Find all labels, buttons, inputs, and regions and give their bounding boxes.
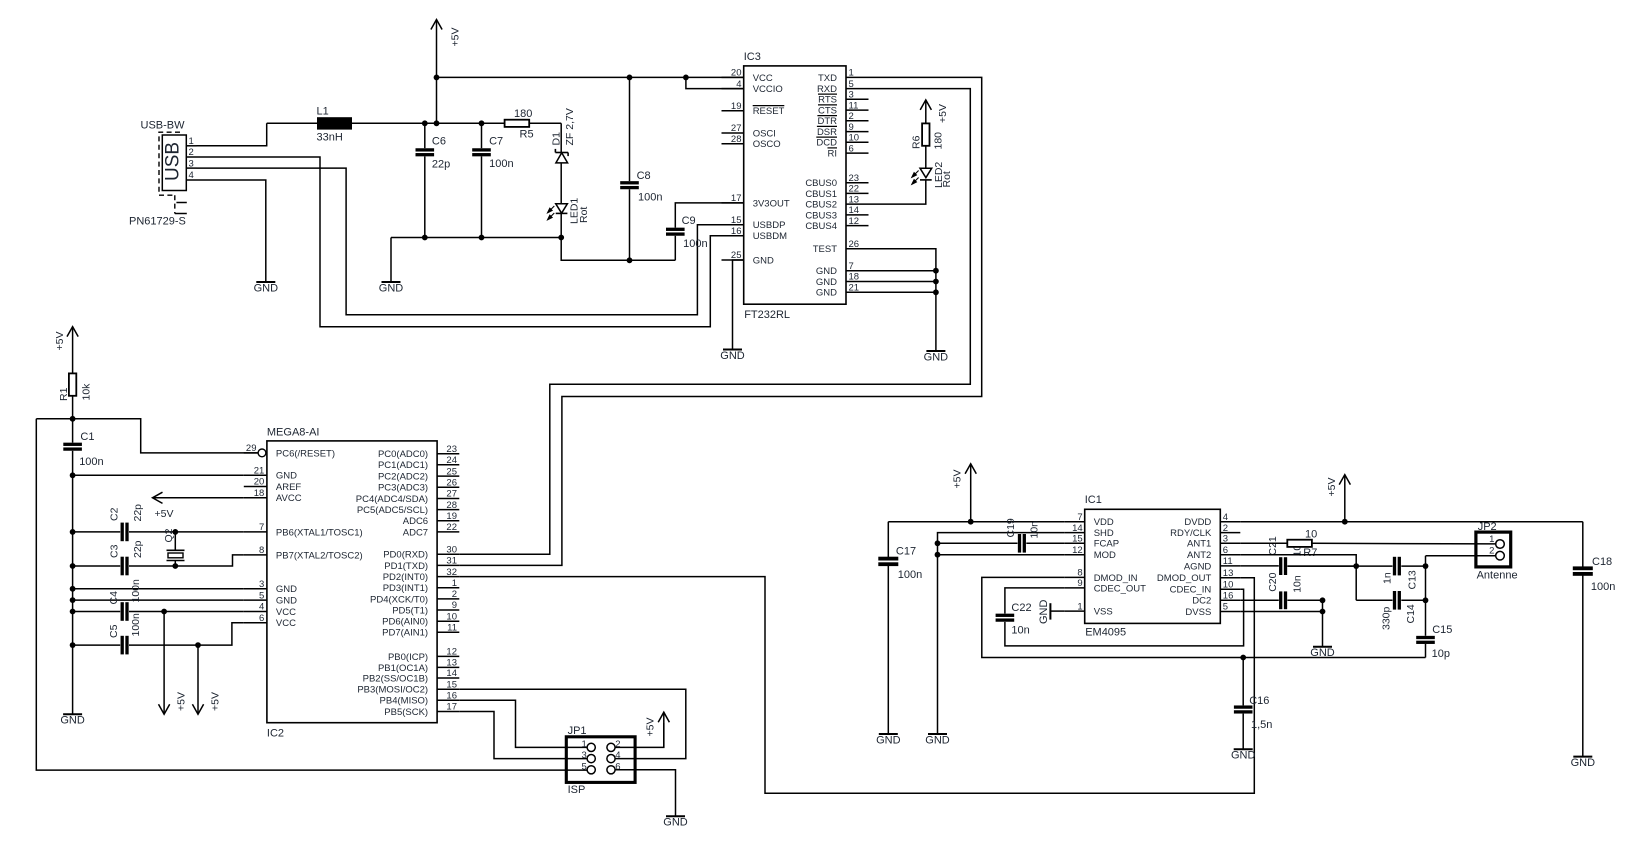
svg-text:PC4(ADC4/SDA): PC4(ADC4/SDA)	[356, 494, 428, 505]
svg-text:3: 3	[849, 90, 854, 101]
svg-text:33nH: 33nH	[317, 132, 343, 144]
svg-text:14: 14	[1072, 523, 1083, 534]
pin 26 PC3(ADC3) (IC2 right)	[378, 478, 459, 494]
svg-text:21: 21	[849, 283, 860, 294]
svg-text:VCC: VCC	[276, 607, 296, 618]
capacitor C3 22p	[73, 540, 244, 575]
wire LED2 cathode to CBUS2	[869, 180, 926, 204]
svg-text:GND: GND	[816, 266, 837, 277]
svg-text:1,5n: 1,5n	[1251, 719, 1272, 731]
wire CDEC_OUT loop	[1005, 588, 1065, 614]
svg-text:GND: GND	[816, 277, 837, 288]
wire RESET to ISP pin5 (left edge loop)	[36, 419, 587, 770]
svg-text:GND: GND	[663, 817, 688, 829]
svg-text:30: 30	[446, 544, 457, 555]
wire PB3(MOSI) to ISP pin4	[459, 689, 686, 758]
svg-text:VCC: VCC	[276, 618, 296, 629]
supply +5V (AVCC arrow)	[153, 492, 244, 520]
svg-text:6: 6	[1223, 545, 1228, 556]
pin 5 GND (IC2 left)	[244, 590, 297, 606]
svg-text:PB1(OC1A): PB1(OC1A)	[378, 663, 428, 674]
svg-text:100n: 100n	[79, 456, 103, 468]
supply +5V (VCC pin4, down arrow)	[159, 612, 188, 715]
svg-text:PC1(ADC1): PC1(ADC1)	[378, 460, 428, 471]
pin 7 GND (IC3 right)	[816, 261, 869, 277]
pin 10 PD6(AIN0) (IC2 right)	[382, 611, 459, 627]
pin 17 PB5(SCK) (IC2 right)	[384, 702, 459, 718]
svg-text:16: 16	[446, 691, 457, 702]
svg-text:DMOD_IN: DMOD_IN	[1094, 573, 1138, 584]
svg-text:17: 17	[446, 702, 457, 713]
svg-text:R5: R5	[520, 129, 534, 141]
pin 25 GND (IC3 left)	[722, 250, 774, 266]
svg-text:1: 1	[582, 739, 587, 750]
wire VCCIO riser	[686, 77, 744, 88]
svg-text:12: 12	[849, 216, 860, 227]
svg-text:R7: R7	[1303, 547, 1317, 559]
svg-text:8: 8	[259, 545, 264, 556]
ground GND (C17)	[876, 734, 901, 747]
wire IC2 GND pin3	[73, 588, 244, 590]
pin 19 RESET (IC3 left)	[722, 101, 785, 117]
svg-text:C13: C13	[1406, 570, 1418, 589]
svg-text:IC1: IC1	[1085, 494, 1102, 506]
pin 10 CDEC_IN (IC1 right)	[1170, 579, 1241, 595]
svg-text:C15: C15	[1432, 624, 1452, 636]
svg-text:AREF: AREF	[276, 482, 302, 493]
svg-text:+5V: +5V	[155, 508, 174, 520]
pin 2 PD4(XCK/T0) (IC2 right)	[370, 589, 459, 605]
svg-text:PC6(/RESET): PC6(/RESET)	[276, 448, 335, 459]
svg-text:3: 3	[189, 158, 194, 169]
pin 16 USBDM (IC3 left)	[722, 226, 788, 242]
capacitor C19 10n	[938, 518, 1065, 553]
wire USB VBUS (pin1 up to L1 rail)	[197, 123, 267, 146]
connector X1 USB-BW PN61729-S	[129, 120, 197, 228]
svg-text:PD4(XCK/T0): PD4(XCK/T0)	[370, 594, 428, 605]
svg-text:+5V: +5V	[54, 332, 66, 351]
svg-text:PD1(TXD): PD1(TXD)	[384, 561, 428, 572]
pin 17 3V3OUT (IC3 left)	[722, 193, 790, 209]
svg-text:+5V: +5V	[176, 692, 188, 711]
svg-text:7: 7	[849, 261, 854, 272]
svg-text:28: 28	[446, 500, 457, 511]
svg-text:10: 10	[849, 133, 860, 144]
svg-text:C14: C14	[1405, 604, 1417, 623]
svg-text:VSS: VSS	[1094, 607, 1113, 618]
svg-text:22: 22	[849, 184, 860, 195]
svg-text:3: 3	[259, 579, 264, 590]
svg-text:1: 1	[849, 68, 854, 79]
pin 18 AVCC (IC2 left)	[244, 488, 302, 504]
pin 18 GND (IC3 right)	[816, 272, 869, 288]
svg-text:5: 5	[259, 590, 264, 601]
pin 5 RXD (IC3 right)	[817, 79, 869, 95]
svg-text:22p: 22p	[432, 159, 450, 171]
svg-text:21: 21	[254, 466, 265, 477]
IC U-IC1 EM4095	[1065, 494, 1241, 639]
svg-text:180: 180	[932, 132, 944, 150]
ground GND (ISP)	[663, 816, 688, 829]
wire USB pin4 to ground	[197, 180, 266, 282]
wire USBDM (USB pin2 to IC3 USBDM)	[197, 157, 744, 327]
wire DVSS to ground	[1240, 597, 1325, 646]
svg-text:22p: 22p	[132, 540, 144, 558]
svg-text:ANT2: ANT2	[1187, 550, 1211, 561]
svg-text:R1: R1	[58, 387, 70, 401]
pin 1 VSS (IC1 left)	[1065, 601, 1113, 617]
svg-text:GND: GND	[254, 283, 279, 295]
svg-text:FT232RL: FT232RL	[744, 309, 790, 321]
pin 12 MOD (IC1 left)	[1065, 545, 1116, 561]
wire GND rail (left of IC2)	[70, 472, 76, 714]
supply +5V (VCC pin6, down arrow)	[192, 645, 221, 714]
svg-text:10k: 10k	[81, 383, 93, 401]
svg-text:C21: C21	[1267, 536, 1279, 555]
svg-text:GND: GND	[276, 584, 297, 595]
svg-text:7: 7	[1077, 512, 1082, 523]
svg-text:GND: GND	[1038, 600, 1050, 625]
ground GND (USB shell)	[254, 282, 279, 295]
svg-text:AGND: AGND	[1184, 561, 1212, 572]
svg-text:C8: C8	[637, 170, 651, 182]
svg-text:4: 4	[615, 750, 620, 761]
pin 29 PC6(/RESET) (IC2 left)	[244, 443, 335, 459]
svg-text:ADC6: ADC6	[403, 516, 428, 527]
pin 4 DVDD (IC1 right)	[1184, 512, 1240, 528]
svg-text:GND: GND	[276, 471, 297, 482]
pin 8 DMOD_IN (IC1 left)	[1065, 568, 1138, 584]
pin 23 PC0(ADC0) (IC2 right)	[378, 444, 459, 460]
svg-text:18: 18	[849, 272, 860, 283]
svg-text:23: 23	[446, 444, 457, 455]
svg-text:+5V: +5V	[210, 692, 222, 711]
wire DVDD +5V rail	[1240, 519, 1583, 525]
svg-text:C7: C7	[489, 136, 503, 148]
crystal Q2	[163, 528, 185, 569]
svg-text:PN61729-S: PN61729-S	[129, 216, 186, 228]
svg-text:MOD: MOD	[1094, 550, 1116, 561]
svg-text:CTS: CTS	[818, 106, 837, 117]
capacitor C14 330p	[1356, 591, 1425, 630]
svg-text:DC2: DC2	[1192, 596, 1211, 607]
svg-text:C17: C17	[896, 546, 916, 558]
pin 13 CBUS2 (IC3 right)	[805, 194, 868, 210]
svg-text:22: 22	[446, 522, 457, 533]
svg-text:PD3(INT1): PD3(INT1)	[383, 583, 428, 594]
svg-text:PB4(MISO): PB4(MISO)	[380, 696, 429, 707]
pin 15 PB3(MOSI/OC2) (IC2 right)	[357, 679, 459, 695]
ground GND (IC1 VSS, rotated)	[1038, 600, 1065, 625]
capacitor C13 1n	[1356, 557, 1418, 590]
pin 15 FCAP (IC1 left)	[1065, 534, 1119, 550]
capacitor C21 10n (AGND)	[1240, 536, 1356, 575]
capacitor C9 100n	[666, 203, 744, 260]
svg-text:PD6(AIN0): PD6(AIN0)	[382, 617, 428, 628]
svg-text:9: 9	[1077, 578, 1082, 589]
svg-text:5: 5	[849, 79, 854, 90]
IC U-IC2 MEGA8-AI	[244, 426, 459, 739]
svg-text:PB2(SS/OC1B): PB2(SS/OC1B)	[363, 673, 428, 684]
diode D1 zener ZF 2,7V	[550, 108, 576, 203]
wire antenna column (C13/C14/C15 to JP2 pin2)	[1287, 556, 1495, 636]
pin 27 PC4(ADC4/SDA) (IC2 right)	[356, 489, 460, 505]
ground GND (IC3 TEST/GND)	[924, 351, 949, 364]
svg-text:4: 4	[259, 602, 264, 613]
svg-text:15: 15	[1072, 534, 1083, 545]
pin 22 ADC7 (IC2 right)	[403, 522, 460, 538]
svg-text:6: 6	[615, 761, 620, 772]
resistor R6 180	[911, 123, 945, 167]
svg-text:PB5(SCK): PB5(SCK)	[384, 707, 428, 718]
wire IC2 GND pin5	[73, 599, 244, 601]
svg-text:ADC7: ADC7	[403, 527, 428, 538]
wire ISP pin6 to ground	[615, 770, 676, 816]
svg-text:15: 15	[731, 215, 742, 226]
svg-text:19: 19	[446, 511, 457, 522]
svg-text:DSR: DSR	[817, 127, 837, 138]
pin 2 DTR (IC3 right)	[817, 111, 868, 127]
svg-text:C9: C9	[682, 215, 696, 227]
svg-text:PD0(RXD): PD0(RXD)	[383, 550, 428, 561]
svg-text:C1: C1	[80, 431, 94, 443]
svg-text:C20: C20	[1267, 572, 1279, 591]
capacitor C20 10n (DC2)	[1240, 572, 1322, 609]
svg-text:Rot: Rot	[941, 171, 953, 187]
supply +5V (R1)	[54, 327, 78, 374]
svg-text:100n: 100n	[683, 238, 707, 250]
svg-text:PC3(ADC3): PC3(ADC3)	[378, 483, 428, 494]
svg-text:C22: C22	[1011, 602, 1031, 614]
svg-text:DMOD_OUT: DMOD_OUT	[1157, 573, 1212, 584]
svg-text:32: 32	[446, 567, 457, 578]
pin 6 VCC (IC2 left)	[244, 613, 296, 629]
svg-text:C18: C18	[1592, 556, 1612, 568]
svg-text:9: 9	[452, 600, 457, 611]
pin 11 CTS (IC3 right)	[818, 100, 869, 116]
pin 14 CBUS3 (IC3 right)	[805, 205, 868, 221]
svg-text:GND: GND	[816, 288, 837, 299]
capacitor C15 10p	[1416, 624, 1452, 660]
svg-text:330p: 330p	[1381, 606, 1393, 630]
svg-text:CBUS2: CBUS2	[805, 200, 837, 211]
wire RESET net	[36, 416, 258, 453]
svg-text:2: 2	[1489, 546, 1494, 557]
svg-text:1: 1	[1489, 534, 1494, 545]
svg-text:GND: GND	[379, 283, 404, 295]
svg-text:C5: C5	[108, 624, 120, 638]
svg-text:USB: USB	[163, 142, 184, 181]
svg-text:3: 3	[1223, 534, 1228, 545]
svg-text:Rot: Rot	[578, 207, 590, 223]
pin 26 TEST (IC3 right)	[813, 239, 869, 255]
svg-text:C4: C4	[108, 591, 120, 605]
svg-text:CBUS0: CBUS0	[805, 178, 837, 189]
svg-text:2: 2	[452, 589, 457, 600]
svg-text:C3: C3	[109, 544, 121, 558]
svg-text:USB-BW: USB-BW	[141, 120, 186, 132]
capacitor C5 100n	[73, 613, 244, 654]
pin 25 PC2(ADC2) (IC2 right)	[378, 466, 459, 482]
pin 4 VCC (IC2 left)	[244, 602, 296, 618]
svg-text:GND: GND	[876, 735, 901, 747]
pin 28 PC5(ADC5/SCL) (IC2 right)	[357, 500, 459, 516]
pin 21 GND (IC2 left)	[244, 466, 297, 482]
svg-text:OSCI: OSCI	[753, 128, 776, 139]
svg-text:R6: R6	[911, 135, 923, 149]
wire IC3 GND pin25 to ground	[733, 260, 744, 350]
wire IC3 TEST/GND bus	[869, 249, 939, 351]
svg-text:PC0(ADC0): PC0(ADC0)	[378, 449, 428, 460]
svg-text:CBUS1: CBUS1	[805, 189, 837, 200]
svg-text:IC3: IC3	[744, 51, 761, 63]
resistor R1 10k	[58, 373, 92, 418]
svg-text:PB6(XTAL1/TOSC1): PB6(XTAL1/TOSC1)	[276, 527, 363, 538]
svg-text:31: 31	[446, 556, 457, 567]
pin 32 PD2(INT0) (IC2 right)	[383, 567, 460, 583]
pin 6 RI (IC3 right)	[828, 143, 869, 159]
svg-text:GND: GND	[720, 350, 745, 362]
svg-text:3: 3	[582, 750, 587, 761]
svg-text:USBDP: USBDP	[753, 220, 786, 231]
svg-text:DVSS: DVSS	[1185, 607, 1211, 618]
svg-text:GND: GND	[1231, 750, 1256, 762]
svg-text:4: 4	[736, 79, 741, 90]
pin 14 SHD (IC1 left)	[1065, 523, 1114, 539]
connector JP2 Antenne	[1476, 521, 1518, 582]
capacitor C8 100n	[620, 77, 662, 260]
svg-text:100n: 100n	[898, 569, 922, 581]
pin 11 AGND (IC1 right)	[1184, 556, 1240, 572]
pin 20 AREF (IC2 left)	[244, 477, 302, 493]
pin 28 OSCO (IC3 left)	[722, 134, 781, 150]
svg-text:CBUS3: CBUS3	[805, 210, 837, 221]
svg-text:8: 8	[1077, 568, 1082, 579]
pin 15 USBDP (IC3 left)	[722, 215, 786, 231]
pin 8 PB7(XTAL2/TOSC2) (IC2 left)	[244, 545, 363, 561]
svg-text:6: 6	[849, 143, 854, 154]
wire net TXD: IC3 pin1 to IC2 PD1	[459, 77, 981, 565]
wire VCC node from L1 to R5	[352, 120, 504, 126]
LED LED2 Rot	[912, 162, 953, 188]
svg-text:GND: GND	[1571, 757, 1596, 769]
svg-text:GND: GND	[1310, 647, 1335, 659]
svg-text:PB0(ICP): PB0(ICP)	[388, 652, 428, 663]
svg-text:JP2: JP2	[1478, 521, 1497, 533]
supply +5V (DVDD)	[1326, 475, 1350, 522]
svg-text:+5V: +5V	[937, 104, 949, 123]
svg-text:100n: 100n	[130, 613, 142, 637]
svg-text:11: 11	[1223, 556, 1233, 567]
svg-text:25: 25	[446, 466, 457, 477]
resistor R7 10 (ANT1)	[1240, 528, 1496, 559]
svg-text:AVCC: AVCC	[276, 493, 302, 504]
svg-text:100n: 100n	[1591, 581, 1615, 593]
svg-text:+5V: +5V	[450, 28, 462, 47]
svg-text:19: 19	[731, 101, 742, 112]
wire net RXD: IC3 pin5 to IC2 PD0	[459, 89, 970, 555]
wire VDD rail left of IC1	[888, 519, 1064, 525]
svg-text:GND: GND	[276, 596, 297, 607]
pin 13 PB1(OC1A) (IC2 right)	[378, 658, 459, 674]
svg-text:C6: C6	[432, 136, 446, 148]
svg-text:18: 18	[254, 488, 265, 499]
svg-text:GND: GND	[924, 352, 949, 364]
svg-text:PB7(XTAL2/TOSC2): PB7(XTAL2/TOSC2)	[276, 550, 363, 561]
capacitor C4 100n	[73, 579, 244, 621]
svg-text:16: 16	[731, 226, 742, 237]
ground GND (C6/C7)	[379, 282, 404, 295]
resistor R5 180	[505, 108, 562, 141]
svg-text:D1: D1	[550, 132, 562, 146]
svg-text:22p: 22p	[132, 504, 144, 522]
svg-text:1: 1	[452, 578, 457, 589]
pin 4 VCCIO (IC3 left)	[722, 79, 783, 95]
pin 16 DC2 (IC1 right)	[1192, 591, 1240, 607]
svg-text:17: 17	[731, 193, 742, 204]
pin 22 CBUS1 (IC3 right)	[805, 184, 868, 200]
svg-text:12: 12	[1072, 545, 1083, 556]
pin 24 PC1(ADC1) (IC2 right)	[378, 455, 459, 471]
svg-text:FCAP: FCAP	[1094, 539, 1119, 550]
capacitor C17 100n	[878, 522, 922, 734]
inductor L1 33nH	[267, 106, 352, 144]
svg-text:ZF 2,7V: ZF 2,7V	[564, 108, 576, 145]
wire DMOD_IN loop to C15/C16 node	[982, 577, 1426, 660]
svg-text:10: 10	[1223, 579, 1234, 590]
svg-text:L1: L1	[317, 106, 329, 118]
svg-text:10n: 10n	[1291, 575, 1303, 593]
svg-text:C19: C19	[1005, 518, 1017, 537]
svg-text:VCC: VCC	[753, 73, 773, 84]
svg-text:DCD: DCD	[816, 138, 837, 149]
svg-text:10: 10	[1305, 528, 1317, 540]
svg-text:26: 26	[849, 239, 860, 250]
svg-text:4: 4	[189, 170, 194, 181]
pin 1 TXD (IC3 right)	[818, 68, 869, 84]
svg-text:RDY/CLK: RDY/CLK	[1170, 528, 1212, 539]
pin 1 PD3(INT1) (IC2 right)	[383, 578, 460, 594]
ground GND (C18)	[1571, 757, 1596, 770]
svg-text:RTS: RTS	[818, 95, 837, 106]
svg-text:14: 14	[446, 668, 457, 679]
svg-text:23: 23	[849, 173, 860, 184]
pin 21 GND (IC3 right)	[816, 283, 869, 299]
svg-text:PC2(ADC2): PC2(ADC2)	[378, 472, 428, 483]
wire SHD/FCAP/MOD ground bus	[935, 533, 1065, 734]
svg-text:100n: 100n	[130, 579, 142, 603]
svg-text:10: 10	[446, 611, 457, 622]
svg-text:10n: 10n	[1029, 521, 1041, 539]
svg-text:CDEC_OUT: CDEC_OUT	[1094, 583, 1146, 594]
pin 12 CBUS4 (IC3 right)	[805, 216, 868, 232]
pin 9 CDEC_OUT (IC1 left)	[1065, 578, 1146, 594]
pin 7 PB6(XTAL1/TOSC1) (IC2 left)	[244, 522, 363, 538]
svg-text:JP1: JP1	[568, 725, 587, 737]
pin 3 ANT1 (IC1 right)	[1187, 534, 1240, 550]
ground GND (DC2/DVSS)	[1310, 647, 1335, 660]
svg-text:+5V: +5V	[952, 470, 964, 489]
LED LED1 Rot	[548, 198, 590, 238]
svg-text:DVDD: DVDD	[1184, 517, 1211, 528]
svg-text:PD2(INT0): PD2(INT0)	[383, 572, 428, 583]
svg-text:+5V: +5V	[1326, 478, 1338, 497]
wire +5V top rail to IC3 VCC	[434, 75, 744, 81]
svg-text:15: 15	[446, 679, 457, 690]
svg-text:10n: 10n	[1011, 625, 1029, 637]
svg-text:C16: C16	[1249, 695, 1269, 707]
supply +5V (R6)	[920, 100, 949, 124]
